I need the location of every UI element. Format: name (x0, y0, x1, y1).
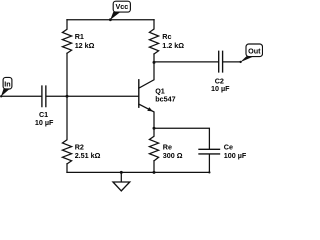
wire bottom ground rail (67, 171, 209, 173)
power flag Vcc box (113, 1, 130, 12)
junction dot Re bottom on ground rail (153, 171, 156, 174)
junction dot Vcc tap (109, 18, 112, 21)
ground symbol (113, 182, 130, 191)
wire In to C1 (1, 95, 41, 97)
port flag In box (3, 77, 12, 89)
junction dot Ce bottom corner (208, 171, 210, 173)
wire Ce bottom lead (208, 155, 210, 173)
transistor Q1 collector branch (139, 62, 154, 88)
svg-text:10 µF: 10 µF (35, 118, 54, 127)
node In endpoint dot (0, 95, 2, 97)
power flag Vcc pointer (110, 12, 120, 20)
wire top rail (Vcc net) (67, 19, 154, 21)
wire C2 to Out (223, 61, 240, 63)
transistor Q1 emitter branch (139, 104, 154, 128)
port flag Out pointer (240, 56, 253, 62)
wire R1 bottom to base node (66, 53, 68, 96)
svg-text:100 µF: 100 µF (224, 151, 247, 160)
ground stub wire (120, 172, 122, 181)
wire collector node to C2 (154, 61, 218, 63)
svg-text:bc547: bc547 (155, 95, 175, 104)
capacitor C2 (219, 51, 223, 72)
wire R2 bottom lead (66, 164, 68, 173)
junction dot collector node (153, 61, 156, 64)
wire C1 to base node (47, 95, 68, 97)
port flag In pointer (1, 89, 10, 97)
node Out endpoint dot (239, 61, 241, 63)
resistor Rc (149, 20, 158, 54)
resistor R1 (62, 20, 71, 54)
svg-text:Rc: Rc (162, 32, 171, 41)
resistor Re (149, 128, 158, 161)
wire Re bottom lead (153, 161, 155, 173)
transistor Q1 base bar (138, 80, 140, 107)
junction dot ground tap (120, 171, 123, 174)
junction dot base node (66, 95, 69, 98)
svg-text:12 kΩ: 12 kΩ (75, 41, 95, 50)
capacitor C1 (42, 86, 46, 107)
transistor Q1 emitter arrow (147, 107, 153, 111)
resistor R2 (62, 96, 71, 164)
svg-text:10 µF: 10 µF (211, 84, 230, 93)
svg-text:300 Ω: 300 Ω (163, 151, 183, 160)
wire Rc bottom to collector node (153, 54, 155, 62)
wire base node to Q1 base (67, 95, 139, 97)
svg-text:2.51 kΩ: 2.51 kΩ (75, 151, 101, 160)
svg-text:In: In (4, 80, 10, 89)
svg-text:R1: R1 (75, 32, 84, 41)
port flag Out box (246, 44, 263, 57)
wire emitter node to Ce (154, 128, 209, 149)
junction dot emitter node (153, 127, 156, 130)
svg-text:Vcc: Vcc (116, 2, 129, 11)
capacitor Ce (199, 149, 220, 154)
svg-text:Out: Out (248, 46, 261, 55)
svg-text:1.2 kΩ: 1.2 kΩ (162, 41, 184, 50)
